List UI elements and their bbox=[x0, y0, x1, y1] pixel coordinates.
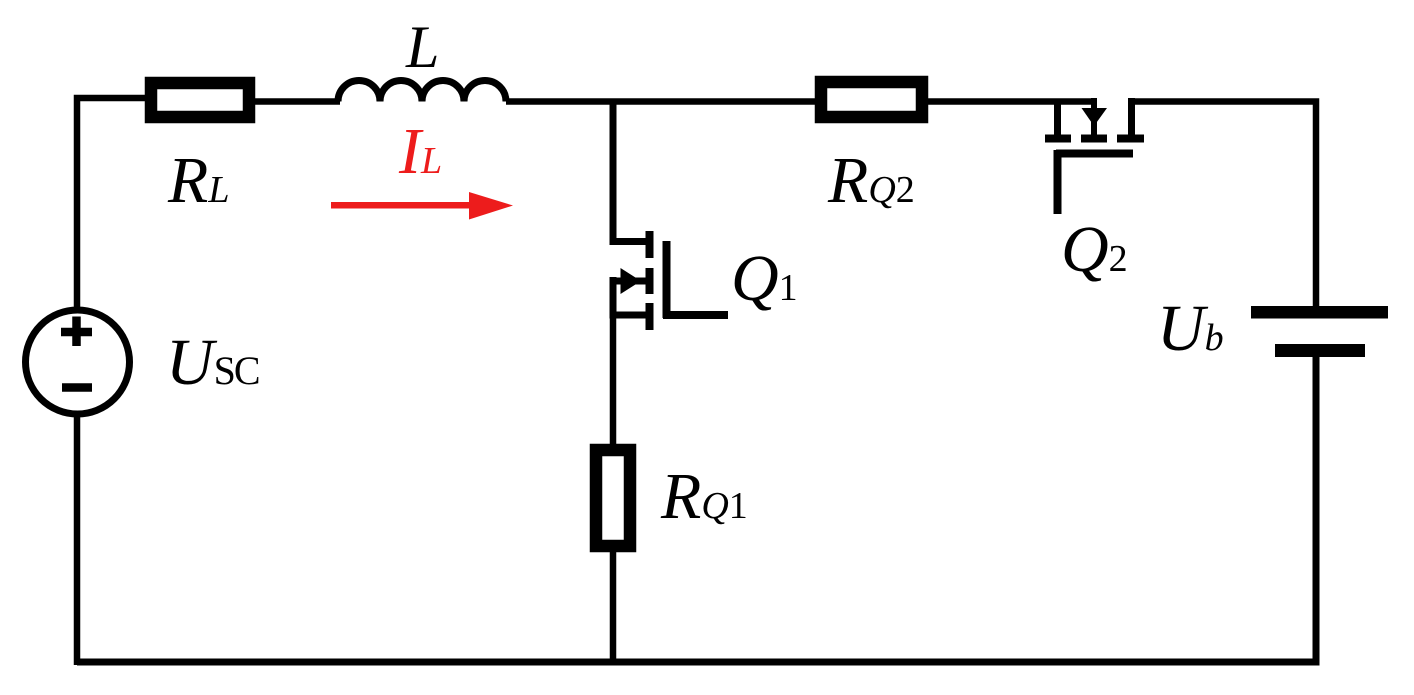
transistor Q2 bbox=[1045, 98, 1144, 154]
battery Ub bbox=[1251, 306, 1388, 357]
wire top-left from source to RL bbox=[77, 98, 147, 307]
resistor RL bbox=[151, 83, 249, 117]
resistor RQ1 bbox=[596, 450, 630, 546]
Q2 gate lead bbox=[1054, 150, 1062, 214]
inductor L bbox=[338, 81, 506, 102]
wire bottom-left vertical bbox=[74, 416, 81, 665]
wire battery to bottom-right corner bbox=[77, 357, 1316, 662]
node A junction wire down to Q1 drain bbox=[613, 102, 647, 242]
transistor Q1 bbox=[612, 231, 667, 330]
source USC bbox=[26, 310, 130, 414]
Q1 gate lead bbox=[663, 311, 728, 319]
wire RQ1 to bottom bbox=[610, 552, 617, 662]
svg-text:L: L bbox=[405, 14, 439, 80]
wire RL to inductor bbox=[255, 98, 340, 105]
wire RQ2 to Q2 bbox=[928, 98, 1097, 105]
wire Q1 source down to RQ1 bbox=[610, 310, 617, 448]
wire Q2 to top-right corner and down to battery bbox=[1128, 102, 1316, 307]
current arrow IL bbox=[331, 192, 513, 220]
resistor RQ2 bbox=[821, 82, 922, 117]
wire inductor to RQ2 bbox=[506, 98, 817, 105]
